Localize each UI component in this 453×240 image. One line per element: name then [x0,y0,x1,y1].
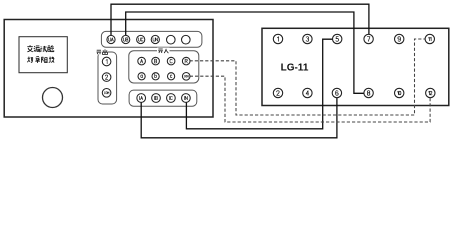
svg-text:LG-11: LG-11 [281,63,309,74]
